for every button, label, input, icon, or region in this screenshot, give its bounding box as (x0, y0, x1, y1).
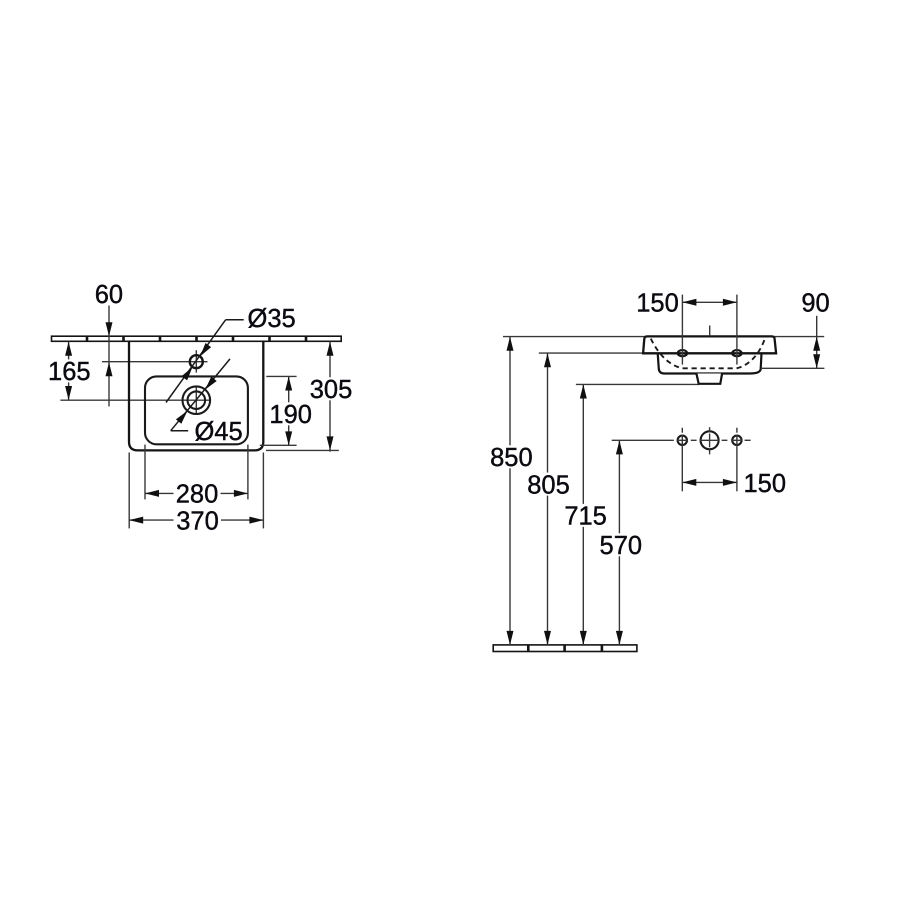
drain boss (side view) (696, 374, 722, 384)
dimension 305 (basin depth) (308, 342, 354, 452)
svg-text:90: 90 (801, 289, 829, 317)
dimension 370 (basin width) (129, 453, 263, 536)
dimension 165 (wall to drain centre) (46, 342, 92, 400)
faucet hole crosshair vertical (195, 350, 197, 372)
extension line: bowl top right (266, 375, 296, 377)
dimension 850 (rim height) (488, 337, 534, 645)
extension line: drain centre (horizontal) (60, 399, 211, 401)
svg-text:60: 60 (95, 281, 123, 309)
drain hole inner circle Ø45 (188, 391, 206, 409)
dimension 150 (top, hole spacing) (636, 290, 737, 365)
anchor hole centre (rear) (701, 431, 719, 449)
svg-text:370: 370 (176, 507, 219, 535)
mounting hole left (side view ellipse) (678, 350, 687, 356)
wall hatch band (plan view) (52, 336, 342, 341)
drain hole outer circle (183, 386, 211, 414)
svg-text:715: 715 (564, 503, 607, 531)
extension line: bowl bottom right (260, 444, 297, 446)
dimension 150 (bottom, fixing hole spacing) (682, 470, 786, 498)
extension line: underside flange 805 (539, 352, 648, 354)
extension line: faucet hole centre (horizontal) (102, 361, 208, 363)
mounting hole right (side view ellipse) (732, 350, 741, 356)
svg-text:190: 190 (269, 401, 312, 429)
svg-text:150: 150 (744, 470, 787, 498)
basin flange (side view) (643, 336, 776, 353)
extension line: rim height 850 (503, 336, 824, 338)
svg-text:Ø35: Ø35 (248, 305, 296, 333)
basin body (side view) (658, 353, 762, 373)
centreline between holes (709, 326, 711, 337)
dimension 570 (fixing hole height) (598, 440, 644, 645)
extension line: fixing holes 570 (612, 439, 674, 441)
svg-text:150: 150 (636, 290, 679, 318)
floor hatch band (493, 645, 637, 652)
svg-text:280: 280 (176, 481, 219, 509)
leader Ø45 (diagonal with arrows) (171, 359, 230, 431)
drain crosshair vertical (195, 387, 197, 414)
dimension 280 (bowl width) (145, 445, 248, 509)
faucet hole circle Ø35 (190, 355, 203, 368)
dimension 90 (flange height) (801, 289, 829, 368)
svg-text:570: 570 (600, 532, 643, 560)
dimension 805 (526, 353, 572, 645)
extension line: body bottom right (266, 449, 339, 451)
fixing hole right (rear) (732, 436, 741, 445)
washbasin outer body (plan) (129, 341, 263, 450)
leader Ø35 (diagonal with arrows) (166, 320, 244, 403)
svg-text:305: 305 (310, 376, 353, 404)
extension line: drain boss 715 (576, 383, 699, 385)
basin bowl (inner rounded rect) (145, 376, 248, 444)
svg-text:850: 850 (490, 444, 533, 472)
svg-text:165: 165 (48, 358, 91, 386)
hidden bowl contour (dashed) (651, 339, 765, 369)
extension line: 90 bottom (762, 367, 824, 369)
dimension 190 (bowl depth) (268, 377, 314, 446)
svg-text:805: 805 (527, 471, 570, 499)
dimension 60 (wall to faucet hole) (95, 281, 123, 406)
svg-text:Ø45: Ø45 (195, 418, 243, 446)
dimension 715 (drain height) (563, 385, 609, 645)
fixing hole left (rear) (678, 436, 687, 445)
crosshairs and centrelines of rear holes (677, 427, 751, 491)
